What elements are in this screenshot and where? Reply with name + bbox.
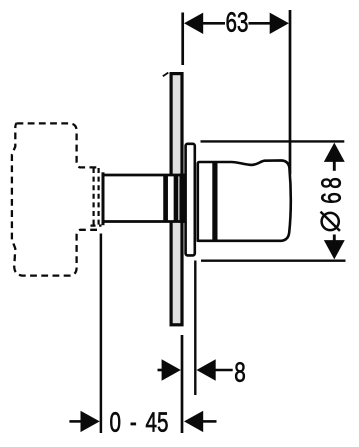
sleeve top edge <box>102 174 187 177</box>
svg-text:68: 68 <box>317 174 348 204</box>
dimension diameter 68: line lower stub <box>333 235 336 244</box>
handle flange (rosette) <box>186 144 195 256</box>
svg-text:63: 63 <box>226 8 249 39</box>
tick at plate top-left <box>163 73 169 77</box>
dimension 8: right arrowhead (pointing left) <box>197 359 216 380</box>
sleeve ring bar 2 <box>174 175 179 222</box>
dimension 63: right extension line <box>289 10 292 175</box>
dimension 8: left extension line (shared with 0-45) <box>181 335 184 433</box>
escutcheon plate (gray) <box>171 74 182 325</box>
dimension diameter 68: top extension line <box>201 140 345 142</box>
handle outline (collar + grip body) <box>198 160 291 240</box>
dimension 8: right tail line <box>214 369 233 372</box>
sleeve white fill <box>103 175 180 222</box>
dimension diameter 68: diameter symbol circle <box>322 213 339 230</box>
sleeve left end cap <box>102 172 105 225</box>
hatch zone dashed vertical line 1 <box>92 168 94 227</box>
svg-text:0 - 45: 0 - 45 <box>110 408 169 439</box>
dimension 63: line left segment <box>202 22 225 25</box>
sleeve bottom edge <box>102 220 187 223</box>
dimension 0-45: left extension line <box>100 234 103 434</box>
dimension 63: line right segment <box>249 22 272 25</box>
dimension diameter 68: down arrowhead <box>324 240 345 259</box>
dimension 8: left tail line <box>158 369 164 372</box>
sleeve-plate junction block <box>179 174 186 223</box>
dimension 8: right extension line <box>194 261 196 396</box>
dimension 63: left extension line <box>181 13 184 66</box>
svg-text:8: 8 <box>234 358 245 389</box>
dimension diameter 68: up arrowhead <box>324 143 345 162</box>
dimension 0-45: left tail line <box>69 420 82 423</box>
dimension 0-45: left arrowhead (pointing right) <box>81 411 100 432</box>
dimension 0-45: right arrowhead (pointing left) <box>184 411 203 432</box>
dimension 63: left arrowhead <box>184 13 203 34</box>
dimension diameter 68: bottom extension line <box>201 260 346 262</box>
dimension diameter 68: diameter symbol slash <box>321 212 340 231</box>
dimension 63: right arrowhead <box>270 13 289 34</box>
dimension diameter 68: line upper stub <box>333 161 336 171</box>
hatch zone dashed horizontal tick <box>91 225 102 227</box>
dimension 8: left arrowhead (pointing right) <box>162 359 181 380</box>
dimension 0-45: right tail line <box>203 420 217 423</box>
sleeve ring bar 1 <box>163 175 168 222</box>
handle collar divider bar <box>212 162 217 241</box>
concealed valve body (dashed outline) <box>12 123 97 275</box>
hatch zone dashed vertical line 2 <box>97 168 99 227</box>
